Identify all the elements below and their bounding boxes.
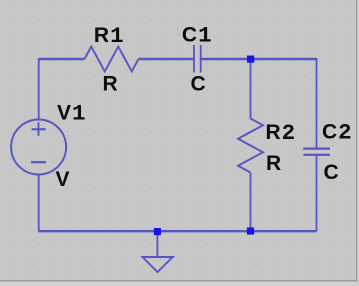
wire R1 to C1 [139,58,195,60]
wire left vertical lower (V1 bottom to rail) [38,174,40,231]
svg-text:C: C [324,161,339,184]
wire node A to C2 corner [251,58,317,60]
svg-text:C1: C1 [182,22,212,48]
wire bottom rail [39,230,317,232]
panel border right [356,0,357,282]
wire C1 to node A [201,58,251,60]
svg-text:R: R [266,152,281,175]
wire C2 bottom vertical [316,155,318,231]
panel border bottom [0,280,357,282]
svg-text:R: R [103,73,118,96]
svg-text:R1: R1 [94,23,124,49]
ground [143,232,173,272]
svg-text:C: C [191,73,206,96]
wire top-left horizontal [39,58,85,60]
node A (junction top) [247,56,254,63]
wire R2 bottom to rail [250,173,252,232]
svg-text:V: V [56,168,70,191]
wire node A down to R2 [250,59,252,119]
svg-text:V1: V1 [57,101,86,127]
svg-text:R2: R2 [266,120,296,146]
resistor R2 [238,119,263,173]
svg-text:C2: C2 [322,120,352,146]
voltage source V1 [11,120,66,175]
wire C2 top vertical [316,58,318,148]
wire left vertical upper (to V1 top) [38,58,40,120]
capacitor C1 [194,45,201,73]
capacitor C2 [303,149,330,155]
resistor R1 [85,47,139,72]
node ground junction [154,228,161,235]
node bottom-right junction [247,227,254,234]
